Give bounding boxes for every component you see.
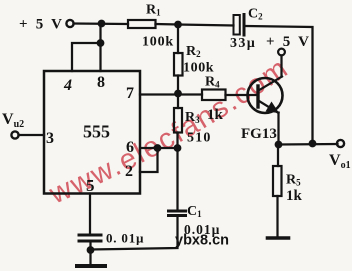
resistor R5 body [273, 166, 282, 196]
capacitor C1 plate bottom [169, 214, 186, 217]
wire C2 to output node [246, 26, 313, 144]
wire output node down to R5 [277, 145, 279, 167]
svg-text:1k: 1k [286, 188, 303, 204]
svg-text:+ 5 V: + 5 V [19, 17, 64, 33]
terminal Vo1 [337, 140, 344, 147]
wire Vu2 to pin 3 [19, 134, 45, 136]
wire +5V to collector [280, 56, 282, 77]
svg-text:510: 510 [187, 131, 212, 146]
svg-text:33µ: 33µ [230, 36, 256, 51]
junction dot C2 output [309, 140, 317, 148]
transistor Q1 collector [259, 77, 283, 91]
terminal +5V right [278, 49, 285, 56]
transistor Q1 emitter [259, 101, 279, 113]
junction node A dot [174, 21, 182, 29]
svg-text:7: 7 [126, 85, 134, 102]
junction dot emitter node [275, 141, 283, 149]
wire output row [279, 143, 338, 146]
svg-text:1k: 1k [207, 107, 224, 123]
wire pin 7 to R4 [140, 93, 202, 95]
wire pin 6 to node C [140, 147, 178, 149]
wire node A to C2 [178, 25, 234, 26]
svg-text:555: 555 [83, 122, 110, 142]
wire +5V to R1 [74, 22, 129, 25]
resistor R2 body [174, 53, 183, 76]
ground bar left [77, 264, 105, 268]
svg-text:ybx8.cn: ybx8.cn [175, 233, 229, 249]
wire C3 to ground [89, 243, 91, 265]
svg-text:5: 5 [86, 176, 95, 195]
wire node A down to R2 [177, 25, 179, 54]
wire R5 to ground [276, 196, 278, 237]
terminal +5V left [66, 20, 73, 27]
wire pin 2 up to node C [140, 148, 158, 172]
junction node B dot [174, 90, 182, 98]
wire R3 down to C1 [176, 133, 178, 210]
junction dot pin4 branch [97, 39, 105, 47]
capacitor C2 plate right [243, 15, 246, 36]
resistor R4 body [202, 90, 226, 101]
svg-text:+ 5 V: + 5 V [266, 34, 311, 50]
wire C1 to bottom rail [91, 217, 178, 250]
ground bar right [268, 236, 289, 240]
svg-text:0. 01µ: 0. 01µ [106, 231, 144, 246]
junction dot R3 column [174, 144, 182, 152]
watermark www.elecfans.com [44, 52, 295, 211]
wire R2 to pin7 row [177, 76, 179, 95]
wire emitter to output node [277, 113, 279, 145]
transistor Q1 base bar [256, 86, 259, 107]
junction node C dot [154, 144, 162, 152]
IC 555 body [44, 71, 140, 194]
svg-text:100k: 100k [142, 35, 174, 50]
junction dot bottom rail [87, 246, 95, 254]
svg-text:100k: 100k [183, 61, 214, 76]
transistor Q1 circle [248, 78, 283, 113]
capacitor C3 plate top [79, 234, 101, 237]
svg-text:2: 2 [125, 163, 133, 180]
wire R4 to base [226, 94, 259, 96]
wire node B down to R3 [177, 95, 179, 109]
svg-text:3: 3 [46, 130, 54, 147]
capacitor C1 plate top [169, 210, 186, 213]
capacitor C3 plate bottom [79, 240, 101, 243]
capacitor C2 plate left [234, 15, 240, 35]
wire R1 to node A [156, 23, 179, 26]
resistor R1 body [128, 20, 156, 28]
wire down to pin 8 [99, 24, 101, 72]
resistor R3 body [174, 108, 182, 133]
svg-text:6: 6 [126, 139, 134, 156]
terminal Vu2 [11, 131, 18, 138]
wire branch to pin 4 [72, 43, 101, 71]
svg-text:FG13: FG13 [241, 126, 277, 142]
svg-text:8: 8 [97, 74, 105, 91]
wire pin 5 down [89, 194, 91, 234]
svg-text:4: 4 [63, 77, 72, 94]
junction dot at +5V wire [98, 20, 106, 28]
transistor Q1 emitter arrow [266, 102, 280, 114]
